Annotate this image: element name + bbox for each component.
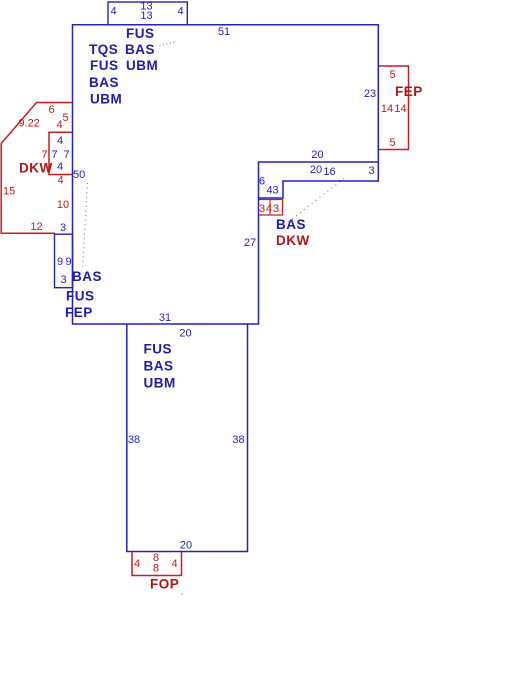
- svg-text:13: 13: [140, 10, 152, 22]
- svg-text:FUS: FUS: [144, 342, 173, 357]
- svg-text:16: 16: [323, 166, 335, 178]
- svg-text:5: 5: [389, 137, 395, 149]
- red box FOP: [132, 552, 182, 576]
- svg-text:23: 23: [364, 88, 376, 100]
- svg-text:FEP: FEP: [395, 84, 423, 99]
- red box FEP: [378, 66, 408, 150]
- svg-text:8: 8: [153, 563, 159, 575]
- svg-text:20: 20: [310, 164, 322, 176]
- svg-text:UBM: UBM: [144, 376, 176, 391]
- svg-text:4: 4: [110, 6, 116, 18]
- svg-text:3: 3: [368, 165, 374, 177]
- svg-text:FUS: FUS: [90, 58, 119, 73]
- svg-text:3: 3: [273, 203, 279, 215]
- svg-text:5: 5: [389, 69, 395, 81]
- svg-text:5: 5: [62, 112, 68, 124]
- svg-text:9.22: 9.22: [19, 118, 40, 130]
- svg-text:10: 10: [57, 199, 69, 211]
- svg-text:20: 20: [311, 149, 323, 161]
- svg-text:15: 15: [3, 186, 15, 198]
- svg-text:27: 27: [244, 237, 256, 249]
- svg-text:BAS: BAS: [144, 359, 174, 374]
- svg-text:20: 20: [179, 328, 191, 340]
- dotted leader top: [160, 42, 176, 46]
- red box divider: [269, 200, 271, 216]
- dotted leader left: [83, 183, 88, 268]
- svg-text:38: 38: [128, 434, 140, 446]
- svg-text:DKW: DKW: [276, 233, 310, 248]
- red inner box DKW: [49, 132, 73, 174]
- svg-text:BAS: BAS: [276, 217, 306, 232]
- svg-text:4: 4: [56, 119, 62, 131]
- svg-text:4: 4: [177, 6, 183, 18]
- svg-text:FUS: FUS: [66, 289, 95, 304]
- svg-text:6: 6: [48, 104, 54, 116]
- top small box: [108, 2, 187, 25]
- svg-text:FEP: FEP: [65, 305, 93, 320]
- red box 3-4-3: [259, 200, 283, 216]
- svg-text:TQS: TQS: [89, 42, 118, 57]
- svg-text:4: 4: [266, 203, 272, 215]
- svg-text:4: 4: [57, 161, 63, 173]
- svg-text:9: 9: [65, 256, 71, 268]
- svg-text:7: 7: [63, 149, 69, 161]
- svg-text:BAS: BAS: [72, 269, 102, 284]
- svg-text:BAS: BAS: [89, 75, 119, 90]
- svg-text:3: 3: [259, 203, 265, 215]
- svg-text:4: 4: [57, 135, 63, 147]
- main building outline: [73, 25, 379, 324]
- svg-text:4: 4: [57, 175, 63, 187]
- svg-text:7: 7: [51, 149, 57, 161]
- svg-text:31: 31: [159, 312, 171, 324]
- svg-text:3: 3: [60, 274, 66, 286]
- svg-text:4: 4: [134, 558, 140, 570]
- svg-text:BAS: BAS: [125, 42, 155, 57]
- svg-text:7: 7: [41, 149, 47, 161]
- bottom wing rectangle: [127, 324, 248, 552]
- notch line right: [259, 162, 379, 198]
- svg-text:3: 3: [60, 222, 66, 234]
- svg-text:6: 6: [259, 176, 265, 188]
- svg-text:UBM: UBM: [126, 58, 158, 73]
- svg-text:38: 38: [232, 434, 244, 446]
- svg-text:UBM: UBM: [90, 92, 122, 107]
- svg-text:14: 14: [394, 103, 406, 115]
- svg-text:14: 14: [381, 103, 393, 115]
- svg-text:FOP: FOP: [150, 577, 179, 592]
- stray mark: [181, 593, 183, 595]
- svg-text:20: 20: [180, 540, 192, 552]
- dotted leader right: [288, 177, 346, 222]
- svg-text:9: 9: [57, 256, 63, 268]
- svg-text:FUS: FUS: [126, 26, 155, 41]
- svg-text:50: 50: [73, 169, 85, 181]
- svg-text:DKW: DKW: [19, 161, 53, 176]
- svg-text:51: 51: [218, 26, 230, 38]
- red left annex polygon DKW: [1, 103, 72, 234]
- svg-text:3: 3: [272, 185, 278, 197]
- svg-text:12: 12: [30, 221, 42, 233]
- svg-text:4: 4: [171, 558, 177, 570]
- left small box: [55, 234, 73, 288]
